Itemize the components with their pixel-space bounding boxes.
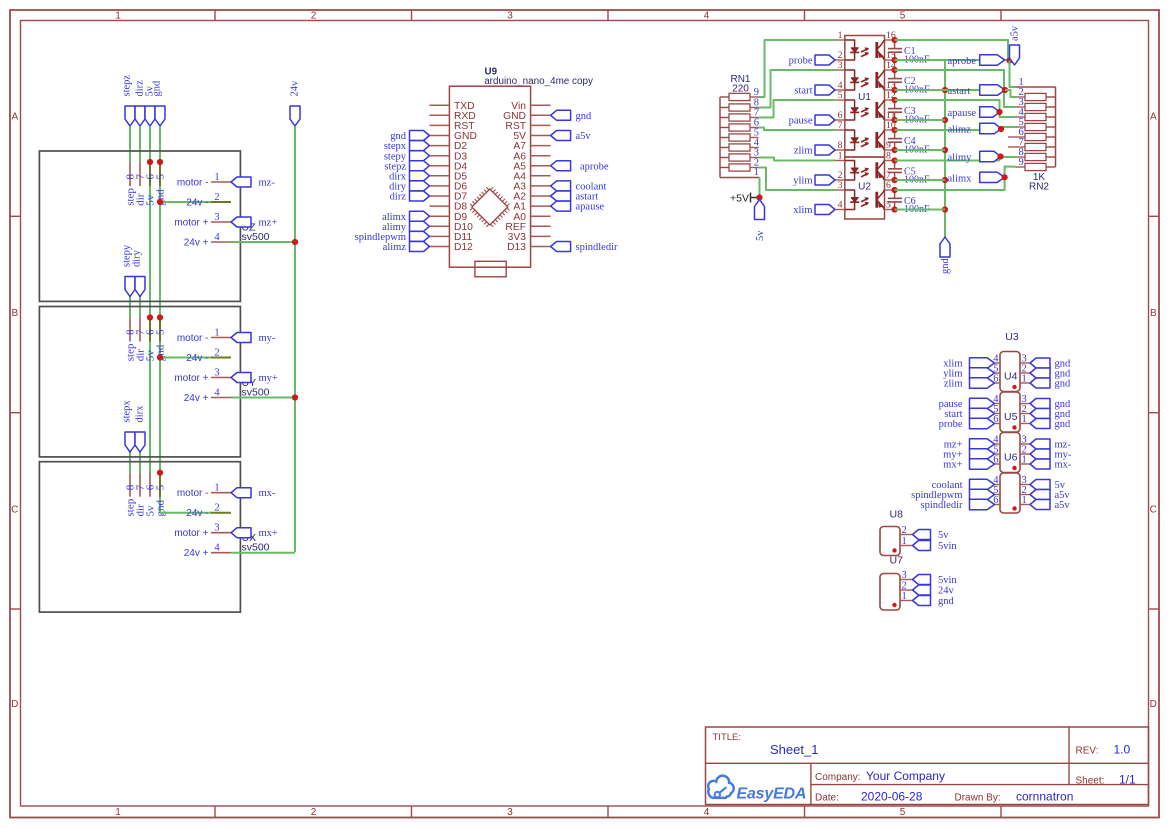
svg-text:REV:: REV: xyxy=(1076,746,1099,757)
wire RN1-9 to U1-1 xyxy=(759,40,836,97)
junction xyxy=(0,0,1,1)
svg-text:U8: U8 xyxy=(890,509,904,521)
svg-text:EasyEDA: EasyEDA xyxy=(737,786,807,803)
wire stepz to UZ pin8 xyxy=(129,126,131,162)
svg-text:C: C xyxy=(1150,505,1157,516)
wire UZ pin4 to 24v rail xyxy=(231,241,295,243)
svg-text:3: 3 xyxy=(214,212,219,223)
wire UX pin4 to 24v rail xyxy=(231,552,295,554)
wire RN1-3 to U2-1 xyxy=(759,158,836,161)
svg-text:zlim: zlim xyxy=(794,146,813,157)
svg-text:U3: U3 xyxy=(1005,331,1019,343)
svg-text:D: D xyxy=(1150,699,1157,710)
wire U1-14 to RN2-3 xyxy=(895,70,1016,107)
designator U8 xyxy=(890,509,904,521)
svg-text:apause: apause xyxy=(576,202,605,213)
wire RN1-6 to U1-7 xyxy=(759,128,836,131)
junctions on gnd rail xyxy=(942,87,948,213)
svg-text:gnd: gnd xyxy=(155,500,167,517)
svg-text:sv500: sv500 xyxy=(242,386,270,398)
UZ pin numbers 8 7 6 5 xyxy=(125,174,167,180)
junction xyxy=(157,470,163,476)
wire dirx to UX pin7 xyxy=(139,452,141,473)
net flag xlim xyxy=(793,205,835,217)
net flag alimz xyxy=(948,123,1002,135)
svg-text:7: 7 xyxy=(838,120,843,131)
net flag gnd xyxy=(1030,368,1071,380)
IC U9 arduino_nano outline xyxy=(449,86,530,267)
net flag ylim xyxy=(793,175,835,187)
svg-text:xlim: xlim xyxy=(793,205,812,216)
U1 channel 4 xyxy=(845,130,884,150)
designator UX xyxy=(242,532,257,544)
svg-text:Drawn By:: Drawn By: xyxy=(955,793,1001,804)
designator U4 xyxy=(1004,371,1018,383)
svg-text:5: 5 xyxy=(155,329,167,335)
net flag stepy xyxy=(384,151,430,163)
net flag a5v xyxy=(1030,490,1070,502)
svg-text:24v +: 24v + xyxy=(184,238,209,249)
svg-text:spindledir: spindledir xyxy=(921,500,963,511)
svg-text:1: 1 xyxy=(1022,414,1027,425)
svg-text:5: 5 xyxy=(155,484,167,490)
net flag spindledir xyxy=(921,499,995,511)
connector U7 outline xyxy=(880,574,900,611)
svg-text:U6: U6 xyxy=(1004,452,1018,464)
value sv500 xyxy=(242,386,270,398)
svg-text:5v: 5v xyxy=(755,230,766,241)
svg-text:24v -: 24v - xyxy=(186,508,208,519)
net flag mz- xyxy=(1030,439,1071,451)
U2 channel 2 xyxy=(845,190,884,210)
wire U2-7 to gnd rail xyxy=(895,179,945,181)
svg-text:5: 5 xyxy=(900,11,906,22)
pin1 marker dot xyxy=(892,603,896,607)
net port diry xyxy=(132,249,145,296)
UY pin names step dir 5v gnd xyxy=(125,343,167,361)
U9 usb connector graphic xyxy=(475,261,506,277)
svg-text:Sheet:: Sheet: xyxy=(1076,776,1105,787)
designator U1 xyxy=(858,92,871,103)
svg-text:gnd: gnd xyxy=(1055,379,1072,390)
wire U1-9 to gnd rail xyxy=(895,149,945,151)
U2 right pin stubs xyxy=(885,161,895,210)
svg-text:24v +: 24v + xyxy=(184,393,209,404)
U1 right pin numbers xyxy=(886,30,896,151)
net flag mz+ xyxy=(944,439,995,451)
U5 pin 6 stub xyxy=(993,414,1000,425)
svg-text:1: 1 xyxy=(1022,495,1027,506)
svg-text:1: 1 xyxy=(115,11,121,22)
net flag coolant xyxy=(932,479,995,491)
svg-text:ylim: ylim xyxy=(793,176,812,187)
svg-text:6: 6 xyxy=(886,180,891,191)
motor driver module UZ sv500 outline xyxy=(39,151,240,301)
net flag 5vin xyxy=(913,575,958,587)
U6 pin 2 stub xyxy=(1020,445,1030,456)
net flag gnd xyxy=(390,131,429,143)
svg-text:diry: diry xyxy=(132,249,143,267)
svg-text:arduino_nano_4me copy: arduino_nano_4me copy xyxy=(484,76,593,87)
svg-text:mx+: mx+ xyxy=(259,528,278,539)
svg-text:a5v: a5v xyxy=(1055,500,1071,511)
junction xyxy=(147,159,163,165)
svg-text:RN2: RN2 xyxy=(1029,182,1049,193)
svg-text:mz-: mz- xyxy=(259,178,276,189)
net flag my- xyxy=(231,333,276,345)
svg-text:1: 1 xyxy=(214,172,219,183)
svg-text:2: 2 xyxy=(902,581,907,592)
svg-text:mz+: mz+ xyxy=(259,218,278,229)
svg-text:3: 3 xyxy=(507,11,513,22)
svg-text:220: 220 xyxy=(732,83,749,94)
U7 pin 3 xyxy=(900,570,913,581)
net flag my+ xyxy=(943,449,994,461)
net port 5v xyxy=(755,200,766,242)
net flag astart xyxy=(948,85,1006,97)
net flag apause xyxy=(948,107,1000,119)
junction xyxy=(996,109,1002,115)
net flag gnd xyxy=(1030,419,1071,431)
junction xyxy=(1006,57,1012,63)
connector U6 outline xyxy=(1000,433,1020,473)
svg-text:1: 1 xyxy=(838,151,843,162)
svg-text:cornnatron: cornnatron xyxy=(1016,790,1073,804)
wire gnd to UY pin2 xyxy=(160,357,231,359)
U4 pin 6 stub xyxy=(993,374,1000,385)
connector group U3 label xyxy=(1005,331,1019,343)
svg-text:aprobe: aprobe xyxy=(580,161,609,172)
svg-text:D13: D13 xyxy=(507,242,526,253)
designator UZ xyxy=(242,222,257,234)
U7 pin 1 xyxy=(900,591,913,602)
designator U5 xyxy=(1004,411,1018,423)
wire U2-8 alimy xyxy=(895,157,1016,161)
svg-text:2: 2 xyxy=(311,807,317,818)
pin1 marker dot xyxy=(1012,506,1016,510)
junction xyxy=(157,354,163,360)
net flag stepx xyxy=(384,141,430,153)
svg-text:start: start xyxy=(794,86,812,97)
UZ pin1 motor- xyxy=(177,172,231,189)
svg-text:3: 3 xyxy=(902,570,907,581)
U6 pin 3 stub xyxy=(1020,435,1030,446)
U6 pin 4 stub xyxy=(993,435,1000,446)
wire gnd to UX pin2 xyxy=(160,512,231,514)
svg-text:U4: U4 xyxy=(1004,371,1018,383)
net port dirx xyxy=(135,405,146,452)
net flag alimy xyxy=(382,221,429,233)
svg-text:+5V: +5V xyxy=(730,192,749,204)
wire 5v vertical xyxy=(149,126,151,473)
U4 pin 1 stub xyxy=(1020,374,1030,385)
rev text xyxy=(1076,743,1131,757)
svg-text:8: 8 xyxy=(886,151,891,162)
svg-text:1: 1 xyxy=(1022,455,1027,466)
capacitor C3 100nF xyxy=(888,100,930,126)
svg-text:motor -: motor - xyxy=(177,178,209,189)
value arduino_nano_4me copy xyxy=(484,76,593,87)
svg-text:3: 3 xyxy=(838,60,843,71)
U7 pin 1 stub xyxy=(1020,495,1030,506)
svg-text:gnd: gnd xyxy=(940,258,951,275)
U6 pin 5 stub xyxy=(993,445,1000,456)
junction xyxy=(756,194,762,200)
junction xyxy=(892,187,898,213)
company row xyxy=(815,769,945,783)
wire 24v vertical xyxy=(294,126,296,552)
net flag spindlepwm xyxy=(911,489,994,501)
svg-text:9: 9 xyxy=(754,87,759,98)
svg-text:4: 4 xyxy=(704,11,710,22)
designator U9 xyxy=(485,67,498,78)
wire RN1-1 to +5V xyxy=(759,178,761,198)
UX pin names step dir 5v gnd xyxy=(125,498,167,516)
wire UY pin4 to 24v rail xyxy=(231,397,295,399)
svg-text:1: 1 xyxy=(902,536,907,547)
svg-text:alimz: alimz xyxy=(948,125,972,136)
net flag alimz xyxy=(383,242,430,254)
wire RN1-8 to U1-3 xyxy=(759,70,836,108)
net flag 5v xyxy=(913,530,950,542)
U4 pin 3 stub xyxy=(1020,354,1030,365)
svg-text:motor +: motor + xyxy=(174,528,208,539)
net flag dirz xyxy=(390,191,430,203)
net port stepx xyxy=(122,400,135,452)
svg-text:alimx: alimx xyxy=(948,173,973,184)
svg-text:1: 1 xyxy=(754,167,759,178)
UY pin2 24v- xyxy=(186,348,219,365)
net flag a5v xyxy=(1030,500,1070,512)
svg-text:dirz: dirz xyxy=(390,192,407,203)
U8 pin 2 xyxy=(900,525,913,536)
net flag aprobe xyxy=(948,55,1005,67)
svg-text:sv500: sv500 xyxy=(242,542,270,554)
designator U2 xyxy=(858,182,871,193)
net flag start xyxy=(794,85,835,97)
svg-text:TITLE:: TITLE: xyxy=(713,732,742,743)
svg-text:U7: U7 xyxy=(890,555,904,567)
UZ pin2 24v- xyxy=(186,192,219,209)
svg-text:Company:: Company: xyxy=(815,772,861,783)
U7 pin 4 stub xyxy=(993,475,1000,486)
svg-text:spindledir: spindledir xyxy=(576,242,618,253)
svg-text:C: C xyxy=(11,505,18,516)
UY pin4 24v+ xyxy=(184,388,231,405)
wire U1-12 to RN2-4 xyxy=(895,100,1016,117)
junction xyxy=(292,394,298,400)
svg-text:24v -: 24v - xyxy=(186,198,208,209)
svg-text:probe: probe xyxy=(789,56,813,67)
wire stepx to UX pin8 xyxy=(129,452,131,473)
capacitor C6 100nF xyxy=(888,190,930,215)
net flag alimx xyxy=(948,172,1005,184)
U1 channel 2 xyxy=(845,70,884,90)
net flag gnd xyxy=(1030,409,1071,421)
wire gnd rail xyxy=(944,60,946,237)
UX pin1 motor- xyxy=(177,483,231,500)
net flag gnd xyxy=(1030,358,1071,370)
U4 pin 5 stub xyxy=(993,364,1000,375)
svg-text:D: D xyxy=(11,699,18,710)
svg-text:4: 4 xyxy=(214,388,220,399)
U2 left pin numbers xyxy=(838,151,843,211)
U7 pin 2 xyxy=(900,581,913,592)
U9 left pin stubs xyxy=(430,105,450,246)
net flag mx+ xyxy=(943,459,994,471)
UY pin1 motor- xyxy=(177,328,231,345)
U9 right pin stubs xyxy=(531,105,551,246)
net flag xlim xyxy=(943,358,994,370)
U1 channel 3 xyxy=(845,100,884,120)
svg-text:mx+: mx+ xyxy=(943,460,962,471)
capacitor C2 100nF xyxy=(888,70,930,96)
connector U4 outline xyxy=(1000,352,1020,392)
svg-text:3: 3 xyxy=(214,368,219,379)
motor driver module UY sv500 outline xyxy=(39,307,240,457)
net flag astart xyxy=(551,191,599,203)
wire a5v to RN2-1 xyxy=(1010,61,1017,88)
designator U6 xyxy=(1004,452,1018,464)
power +5V xyxy=(730,192,759,204)
RN1 pin numbers xyxy=(754,87,760,178)
UX pins 8 7 6 5 stubs xyxy=(130,473,160,497)
svg-text:gnd: gnd xyxy=(152,80,163,97)
svg-text:alimz: alimz xyxy=(383,242,407,253)
wire dirz to UZ pin7 xyxy=(139,126,141,162)
svg-text:a5v: a5v xyxy=(1010,25,1021,41)
svg-text:2: 2 xyxy=(214,348,219,359)
svg-text:motor +: motor + xyxy=(174,373,208,384)
svg-text:apause: apause xyxy=(948,108,977,119)
designator RN2 xyxy=(1029,182,1049,193)
junction xyxy=(892,67,898,93)
net port gnd xyxy=(152,80,165,126)
value sv500 xyxy=(242,231,270,243)
svg-text:1: 1 xyxy=(1022,374,1027,385)
svg-text:motor +: motor + xyxy=(174,218,208,229)
svg-text:1: 1 xyxy=(902,591,907,602)
net port 24v xyxy=(290,80,301,126)
U6 pin 6 stub xyxy=(993,455,1000,466)
net flag zlim xyxy=(944,378,995,390)
svg-text:Your Company: Your Company xyxy=(866,769,945,783)
junction xyxy=(892,127,898,153)
svg-text:stepx: stepx xyxy=(122,400,133,423)
svg-text:mx-: mx- xyxy=(259,488,276,499)
designator UY xyxy=(242,377,257,389)
capacitor C4 100nF xyxy=(888,130,930,156)
wire gnd vertical xyxy=(159,126,161,512)
title block xyxy=(706,727,1149,805)
svg-text:astart: astart xyxy=(948,86,971,97)
junction xyxy=(997,153,1003,159)
svg-text:2: 2 xyxy=(214,503,219,514)
net flag probe xyxy=(789,55,835,67)
optocoupler U1 outline xyxy=(845,36,885,158)
net flag diry xyxy=(389,181,429,193)
net flag dirx xyxy=(389,171,429,183)
net port stepy xyxy=(122,244,135,296)
svg-text:4: 4 xyxy=(838,200,843,211)
U2 left pin stubs xyxy=(835,161,845,210)
svg-text:my-: my- xyxy=(259,333,276,344)
U2 channel 1 xyxy=(845,161,884,181)
svg-text:dirx: dirx xyxy=(135,405,146,423)
wire U1-13 astart xyxy=(895,89,1005,91)
svg-text:gnd: gnd xyxy=(938,596,955,607)
svg-text:8: 8 xyxy=(838,140,843,151)
U4 pin 2 stub xyxy=(1020,364,1030,375)
wire astart to RN2-2 xyxy=(1005,90,1016,97)
UY pin3 motor+ xyxy=(174,368,231,385)
svg-text:24v: 24v xyxy=(290,80,301,97)
pin1 marker dot xyxy=(1012,466,1016,470)
svg-text:3: 3 xyxy=(214,523,219,534)
wire U2-5 to gnd rail xyxy=(895,209,945,211)
net flag apause xyxy=(551,201,605,213)
svg-text:24v +: 24v + xyxy=(184,548,209,559)
net flag probe xyxy=(939,418,995,430)
net flag 5v xyxy=(1030,480,1066,492)
connector U7 outline xyxy=(1000,473,1020,513)
pin1 marker dot xyxy=(1012,425,1016,429)
connector U8 outline xyxy=(880,527,900,556)
wire RN1-2 to U2-3 xyxy=(759,168,836,191)
junction xyxy=(1002,87,1008,93)
resistor network RN1 outline xyxy=(720,93,760,177)
net flag gnd xyxy=(1030,399,1071,411)
svg-text:4: 4 xyxy=(214,232,220,243)
svg-text:1: 1 xyxy=(838,30,843,41)
net flag 5vin xyxy=(913,541,958,553)
svg-text:B: B xyxy=(11,308,18,319)
RN2 pin numbers xyxy=(1019,77,1025,168)
svg-text:A: A xyxy=(11,112,18,123)
U5 pin 3 stub xyxy=(1020,394,1030,405)
svg-text:5: 5 xyxy=(838,90,843,101)
U5 pin 5 stub xyxy=(993,404,1000,415)
net flag start xyxy=(944,408,994,420)
U9 left pin names xyxy=(454,101,477,253)
svg-text:3: 3 xyxy=(838,180,843,191)
net flag a5v xyxy=(551,131,592,143)
svg-text:D12: D12 xyxy=(454,242,473,253)
svg-text:Sheet_1: Sheet_1 xyxy=(770,742,818,757)
wire U2-6 to RN2-9 xyxy=(895,167,1016,191)
net flag 24v xyxy=(913,585,955,597)
net flag gnd xyxy=(551,110,592,122)
svg-text:motor -: motor - xyxy=(177,488,209,499)
svg-text:stepz: stepz xyxy=(122,75,133,97)
svg-text:1.0: 1.0 xyxy=(1114,743,1131,757)
wire RN1-7 to U1-5 xyxy=(759,100,836,118)
net flag pause xyxy=(939,398,995,410)
UZ pin3 motor+ xyxy=(174,212,231,229)
net flag mx- xyxy=(1030,459,1072,471)
net flag alimy xyxy=(948,151,1001,163)
net flag my- xyxy=(1030,449,1072,461)
capacitor C1 100nF xyxy=(888,40,930,66)
EasyEDA logo xyxy=(708,776,806,803)
connector U5 outline xyxy=(1000,392,1020,432)
wire U1-15 aprobe xyxy=(895,59,1010,61)
net flag spindledir xyxy=(551,242,618,254)
net flag zlim xyxy=(794,145,835,157)
U7 pin 5 stub xyxy=(993,485,1000,496)
svg-text:U1: U1 xyxy=(858,92,871,103)
svg-text:alimy: alimy xyxy=(948,153,973,164)
